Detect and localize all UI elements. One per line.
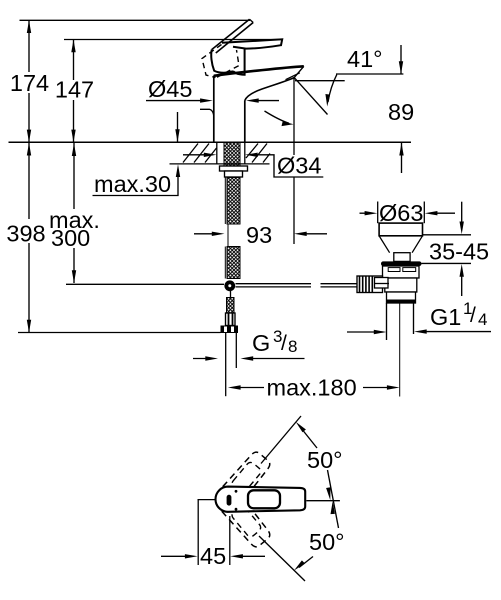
dimension 35-45: [461, 202, 463, 229]
svg-text:50°: 50°: [309, 529, 345, 555]
hose ferrule: [226, 313, 236, 326]
extension line 147 level: [64, 39, 282, 41]
label 398: [5, 219, 49, 243]
body hook detail: [200, 109, 214, 116]
svg-text:147: 147: [55, 77, 94, 103]
arrow up 174 top: [27, 20, 31, 33]
svg-text:max.180: max.180: [267, 375, 357, 401]
ray 50 upper: [261, 416, 301, 464]
handle top view solid: [216, 487, 306, 512]
reference line 398 bottom: [18, 332, 221, 334]
svg-text:50°: 50°: [307, 447, 343, 473]
faucet lever blade: [212, 19, 253, 53]
shank in deck: [224, 143, 240, 167]
svg-text:Ø45: Ø45: [148, 76, 192, 102]
spout tip face: [294, 66, 304, 77]
handle cap: [211, 49, 244, 75]
drain body: [383, 266, 420, 278]
extension line top (handle tip level): [20, 19, 251, 21]
deck hole right edge: [244, 142, 246, 164]
axis line right: [306, 500, 340, 502]
arrow up max300 top: [72, 143, 76, 156]
label 174: [8, 72, 52, 93]
leader upper 50 to ray: [299, 426, 317, 449]
faucet body right edge: [244, 101, 246, 143]
drain top cylinder: [379, 223, 422, 236]
drain nut: [387, 292, 416, 303]
dashed handle position lower: [210, 482, 273, 550]
handle dot upper: [235, 490, 238, 493]
drain taper: [379, 236, 390, 253]
pop-up rod reference line left: [66, 283, 224, 285]
svg-text:G1: G1: [430, 304, 461, 330]
threaded rod upper: [227, 178, 240, 225]
arrow down max300 bottom: [72, 270, 76, 283]
dashed handle position upper: [210, 449, 273, 517]
dimension G1 1/4 arrows: [347, 331, 380, 333]
faucet body left edge: [213, 76, 215, 143]
svg-text:Ø63: Ø63: [379, 200, 423, 226]
dimension max180: [228, 385, 241, 389]
ray 50 lower: [259, 536, 305, 581]
braided hose: [227, 298, 235, 314]
svg-text:/: /: [470, 304, 476, 327]
handle wedge: [222, 39, 282, 48]
dimension Ø63: [377, 202, 379, 224]
dimension Ø34 right arrow and label box: [245, 153, 258, 157]
svg-text:41°: 41°: [347, 46, 383, 72]
handle slot mark: [227, 495, 232, 506]
dimension G3/8 arrows: [193, 358, 212, 360]
threaded rod lower: [227, 247, 240, 279]
dimension 93: [194, 233, 220, 235]
svg-text:93: 93: [246, 222, 272, 248]
spray angle arc arrow: [265, 111, 290, 123]
dimension Ø45 right arrow: [246, 98, 259, 102]
svg-text:89: 89: [388, 99, 414, 125]
dimension 89: [400, 45, 402, 74]
41 degree arc arrow: [328, 75, 337, 102]
dimension Ø34 left arrow: [183, 154, 212, 156]
svg-text:G: G: [252, 330, 270, 356]
arrow up 398 top: [27, 143, 31, 156]
deck bottom line: [170, 163, 270, 165]
faucet lever dashed position: [202, 45, 239, 78]
drain tailpipe: [386, 303, 388, 340]
label 147: [52, 80, 96, 100]
drain flange: [381, 261, 422, 266]
pop-up rod band right: [236, 283, 312, 285]
svg-text:Ø34: Ø34: [277, 153, 321, 179]
41 degree angled ray: [294, 78, 327, 115]
deck hatching: [183, 144, 270, 163]
label max300: [48, 209, 104, 248]
svg-text:45: 45: [200, 543, 226, 569]
mounting nut: [225, 171, 243, 177]
dimension line 174/398 vertical: [28, 20, 30, 332]
rod break line: [227, 224, 229, 246]
handle recess: [248, 490, 280, 508]
drain knurled knob: [357, 276, 383, 293]
deck top line: [9, 141, 412, 143]
svg-text:8: 8: [288, 337, 297, 356]
drain stem block: [394, 253, 410, 262]
supply pipe: [225, 333, 227, 396]
arrow down 398 bottom: [27, 320, 31, 333]
drain centerline: [399, 303, 401, 397]
arrow up 147 top: [71, 40, 75, 53]
spout tip tick left: [198, 499, 216, 501]
dimension max30 bottom arrow and leader: [176, 164, 180, 177]
svg-text:4: 4: [478, 310, 487, 329]
spout top edge: [214, 66, 304, 76]
spout tip extension line: [293, 78, 295, 155]
leader line between 50 labels: [328, 470, 339, 528]
dimension line 147 vertical: [73, 40, 75, 143]
svg-text:35-45: 35-45: [429, 239, 489, 265]
svg-text:/: /: [281, 332, 287, 355]
41 degree horizontal ray: [295, 80, 345, 82]
svg-text:174: 174: [10, 70, 49, 96]
arrow down 174 bottom: [27, 130, 31, 143]
spout underside: [245, 78, 294, 101]
mounting washer: [220, 166, 248, 171]
spout aerator line: [286, 73, 300, 80]
dimension 45: [197, 500, 199, 565]
rod vertical below ball: [230, 291, 232, 298]
svg-text:max.30: max.30: [94, 171, 171, 197]
label Ø34: [276, 156, 322, 177]
hose nut: [221, 326, 239, 334]
svg-text:398: 398: [6, 221, 45, 247]
handle dot lower: [235, 508, 238, 511]
dimension line max300 vertical: [73, 143, 75, 283]
arrow down 147 bottom: [71, 130, 75, 143]
deck hole left edge: [216, 142, 218, 164]
svg-text:300: 300: [51, 225, 90, 251]
dimension max30 top arrow: [177, 112, 179, 142]
ball joint: [224, 280, 235, 291]
leader lower 50 to ray: [299, 557, 313, 568]
